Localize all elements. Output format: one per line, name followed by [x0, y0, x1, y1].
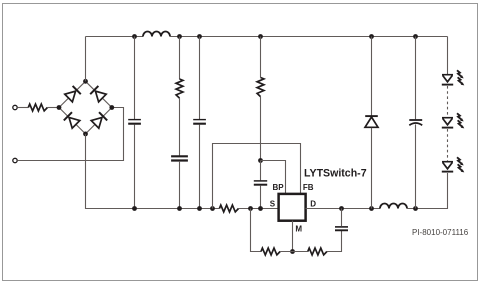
junction D C5 — [339, 206, 344, 211]
junction bridge left — [57, 105, 62, 110]
junction top rail C6 — [413, 34, 418, 39]
wire C6 bottom — [415, 124, 417, 208]
svg-text:D: D — [310, 199, 316, 208]
wire S to R4 — [251, 209, 262, 252]
wire R5 to C5 bottom — [327, 231, 342, 252]
wire FB sense — [213, 144, 301, 209]
inductor L1 — [143, 32, 170, 37]
junction return rail C2 — [197, 206, 202, 211]
capacitor C4 bypass — [254, 181, 267, 185]
capacitor C6 electrolytic — [409, 120, 422, 125]
svg-text:M: M — [295, 225, 302, 234]
wire C2 lower — [199, 125, 201, 209]
junction out C6 — [413, 206, 418, 211]
resistor R3 source rail — [219, 205, 238, 212]
wire D5 top — [371, 37, 373, 117]
wire BP node to C4 — [260, 161, 262, 181]
junction S divider — [248, 206, 253, 211]
wire C1 upper — [134, 37, 136, 120]
wire R3 to S pin — [239, 208, 279, 210]
junction node M — [290, 249, 295, 254]
junction return rail C3 — [177, 206, 182, 211]
wire C5 top — [341, 209, 343, 227]
junction return rail C1 — [132, 206, 137, 211]
junction bridge right — [109, 105, 114, 110]
LED2 — [442, 118, 453, 128]
junction bridge top — [83, 79, 88, 84]
node AC input line terminal — [13, 105, 17, 109]
capacitor C5 sense — [335, 227, 348, 230]
junction top rail R1 — [177, 34, 182, 39]
svg-text:PI-8010-071116: PI-8010-071116 — [412, 228, 469, 237]
wire C2 upper — [199, 37, 201, 120]
junction D D5 — [369, 206, 374, 211]
svg-text:BP: BP — [273, 183, 285, 192]
wire D pin to L2 — [306, 208, 381, 210]
diode D5 freewheel — [365, 116, 378, 127]
junction top rail D5 — [369, 34, 374, 39]
wire R1 to C3 — [179, 98, 181, 155]
resistor RF1 fusible — [28, 104, 47, 111]
wire top rail to LED1 — [447, 37, 449, 75]
wire terminal1 to fuse — [17, 107, 28, 109]
op-amp U1 LYTSwitch-7 body — [279, 194, 306, 221]
diode D4 bridge bottom-right — [91, 112, 107, 128]
svg-text:S: S — [270, 199, 276, 208]
svg-text:FB: FB — [303, 183, 314, 192]
diode D2 bridge top-right — [90, 86, 106, 102]
junction bridge bottom — [83, 132, 88, 137]
LED3 — [442, 162, 453, 172]
wire D5 bottom — [371, 128, 373, 209]
junction return rail FB — [210, 206, 215, 211]
capacitor C1 — [128, 120, 141, 124]
wire M pin — [292, 221, 294, 252]
resistor R2 BP supply — [257, 78, 264, 97]
node AC input neutral terminal — [13, 158, 17, 162]
wire LED1 to LED2 dashed — [447, 86, 449, 117]
junction top rail C2 — [197, 34, 202, 39]
wire L2 to LED string — [407, 173, 448, 209]
LED2 emission arrows — [457, 113, 464, 121]
wire terminal2 to bridge right vertex — [17, 108, 123, 161]
wire top rail right of L1 — [170, 36, 448, 38]
wire C3 lower — [179, 161, 181, 209]
svg-text:LYTSwitch-7: LYTSwitch-7 — [304, 167, 367, 179]
wire R2 upper — [260, 37, 262, 78]
capacitor C2 — [193, 120, 206, 124]
junction top rail C1 — [132, 34, 137, 39]
wire bridge top to rail — [85, 37, 87, 82]
diode D3 bridge bottom-left — [64, 112, 80, 128]
LED1 — [442, 75, 453, 85]
wire R2 to BP node — [260, 97, 262, 161]
wire top rail left of L1 — [86, 36, 144, 38]
junction S C4 — [258, 206, 263, 211]
wire R4 to M node — [280, 251, 308, 253]
resistor R5 — [308, 248, 327, 255]
LED3 emission arrows — [457, 157, 464, 165]
wire fuse to bridge left — [47, 107, 59, 109]
resistor R1 — [176, 79, 183, 98]
wire C1 lower — [134, 125, 136, 209]
junction top rail R2 — [258, 34, 263, 39]
capacitor C3 snubber — [171, 156, 188, 160]
LED1 emission arrows — [457, 70, 464, 78]
wire LED2 to LED3 dashed — [447, 129, 449, 161]
inductor L2 — [380, 204, 407, 209]
wire C6 top — [415, 37, 417, 120]
wire bridge bottom to return rail — [86, 134, 220, 209]
diode D1 bridge top-left — [65, 86, 81, 102]
wire C4 to S rail — [260, 185, 262, 208]
wire R1 upper — [179, 37, 181, 80]
junction node BP — [258, 158, 263, 163]
resistor R4 — [261, 248, 280, 255]
wire bridge diamond — [59, 81, 112, 134]
wire BP node to BP pin — [261, 161, 286, 194]
